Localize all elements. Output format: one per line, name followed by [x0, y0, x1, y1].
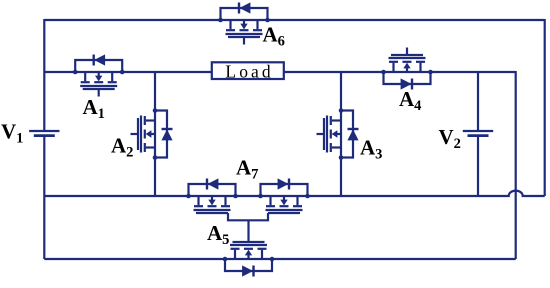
battery V1 (DC source)	[29, 131, 59, 136]
diode (body diode of A6)	[238, 3, 240, 14]
gate bar of A4	[391, 54, 423, 56]
body arrow of A7a	[211, 196, 213, 200]
wire: diode loop of A5	[225, 259, 272, 271]
wire: left rail upper segment (top rail to V1)	[43, 19, 45, 131]
negative plate of V1	[34, 134, 55, 137]
junction dots of A6	[218, 18, 223, 23]
wire: diode loop of A1	[75, 60, 122, 72]
body arrow of A3	[337, 133, 341, 135]
channel bar of A5	[230, 244, 267, 246]
diode (body diode of A5)	[252, 266, 254, 277]
source/drain taps of A7a	[197, 196, 199, 205]
junction dots of A3	[339, 108, 344, 113]
wire: lower-middle rail with crossover hop	[44, 191, 544, 196]
diode (body diode of A7b)	[288, 179, 290, 190]
transistor A3 (MOSFET with anti-parallel body diode)	[317, 108, 359, 160]
source/drain taps of A6	[229, 20, 231, 29]
contact bars of A6	[226, 29, 235, 31]
transistor A7a (MOSFET with anti-parallel body diode)	[186, 178, 238, 213]
source/drain taps of A7b	[296, 196, 298, 205]
wire: gate lead from A7 link down to A5	[247, 220, 249, 242]
channel bar of A6	[226, 33, 263, 35]
source/drain taps of A2	[146, 119, 155, 121]
body arrow of A6	[243, 20, 245, 24]
contact bars of A1	[81, 81, 90, 83]
gate bar of A7b	[268, 212, 300, 214]
wire: diode loop of A7b	[261, 184, 308, 196]
wire: left rail lower segment (V1 to bottom rail)	[43, 136, 45, 259]
transistor A1 (MOSFET with anti-parallel body diode)	[73, 54, 125, 96]
diode (body diode of A1)	[92, 55, 94, 66]
junction dots of A4	[428, 70, 433, 75]
gate lead of A2	[131, 133, 139, 135]
channel bar of A2	[140, 116, 142, 153]
contact bars of A5	[258, 248, 267, 250]
body arrow of A2	[151, 133, 155, 135]
body arrow of A5	[247, 255, 249, 259]
contact bars of A7a	[194, 205, 203, 207]
load resistor box	[212, 62, 284, 79]
negative plate of V2	[468, 134, 489, 137]
gate bar of A7a	[196, 212, 228, 214]
wire: V2 branch lower segment	[477, 136, 479, 196]
wire: A3 branch	[340, 72, 342, 196]
channel bar of A4	[389, 57, 426, 59]
battery V2 (DC source)	[463, 131, 493, 136]
diode (body diode of A3)	[348, 128, 359, 130]
body arrow of A1	[98, 72, 100, 76]
channel bar of A1	[80, 85, 117, 87]
contact bars of A2	[144, 116, 146, 125]
source/drain taps of A1	[84, 72, 86, 81]
wire: diode loop of A4	[384, 72, 431, 84]
gate bar of A3	[323, 118, 325, 150]
wire: top rail	[44, 19, 544, 21]
gate lead of A4	[406, 48, 408, 56]
channel bar of A7a	[194, 209, 231, 211]
junction dots of A2	[153, 108, 158, 113]
transistor A4 (MOSFET with anti-parallel body diode)	[381, 48, 433, 90]
contact bars of A4	[416, 61, 425, 63]
junction dots of A7a	[186, 194, 191, 199]
contact bars of A3	[330, 116, 332, 125]
gate bar of A5	[233, 241, 265, 243]
svg-text:Load: Load	[225, 62, 273, 82]
channel bar of A7b	[266, 209, 303, 211]
gate lead of A6	[243, 37, 245, 45]
source/drain taps of A4	[419, 63, 421, 72]
gate bar of A2	[137, 118, 139, 150]
positive plate of V2	[463, 130, 493, 132]
wire: A7 common gate link to A5 gate	[228, 213, 268, 220]
diode (body diode of A2)	[162, 128, 173, 130]
diode (body diode of A4)	[411, 79, 413, 90]
body arrow of A7b	[283, 196, 285, 200]
junction dots of A5	[270, 257, 275, 262]
transistor A5 (MOSFET with anti-parallel body diode)	[223, 242, 275, 277]
wire: diode loop of A6	[221, 8, 268, 20]
transistor A2 (MOSFET with anti-parallel body diode)	[131, 108, 173, 160]
wire: bottom rail	[44, 258, 515, 260]
channel bar of A3	[326, 116, 328, 153]
gate lead of A3	[317, 133, 325, 135]
source/drain taps of A5	[261, 250, 263, 259]
wire: diode loop of A2	[155, 111, 167, 158]
wire: diode loop of A3	[341, 111, 353, 158]
wire: middle rail (A1-Load-A4 row)	[44, 71, 515, 73]
contact bars of A7b	[293, 205, 302, 207]
wire: right outer rail	[544, 19, 546, 196]
junction dots of A7b	[305, 194, 310, 199]
transistor A6 (MOSFET with anti-parallel body diode)	[218, 2, 270, 44]
source/drain taps of A3	[332, 119, 341, 121]
gate bar of A6	[228, 36, 260, 38]
junction dots of A1	[73, 70, 78, 75]
gate bar of A1	[83, 88, 115, 90]
diode (body diode of A7a)	[206, 179, 208, 190]
wire: V2 branch upper segment	[477, 72, 479, 131]
transistor A7b (MOSFET with anti-parallel body diode)	[258, 178, 310, 213]
wire: diode loop of A7a	[189, 184, 236, 196]
wire: A2 branch	[154, 72, 156, 196]
wire: right inner rail	[515, 71, 517, 259]
gate lead of A1	[98, 89, 100, 97]
body arrow of A4	[406, 68, 408, 72]
positive plate of V1	[29, 130, 59, 132]
